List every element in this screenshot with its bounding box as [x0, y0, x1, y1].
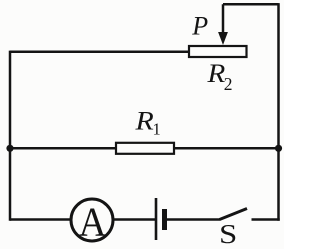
- wire battery to switch: [167, 218, 220, 221]
- rheostat wiper arrowhead: [218, 32, 228, 45]
- resistor R1 body: [116, 143, 174, 154]
- svg-text:S: S: [219, 219, 237, 249]
- svg-text:2: 2: [224, 74, 233, 94]
- node left junction: [6, 145, 13, 152]
- wire middle branch: [10, 147, 279, 150]
- svg-text:R: R: [134, 107, 153, 136]
- battery negative plate (short thick): [162, 209, 167, 230]
- ammeter A body: [71, 199, 113, 241]
- node right junction: [275, 145, 282, 152]
- wire switch to bottom-right corner: [252, 218, 280, 221]
- svg-text:A: A: [79, 198, 107, 245]
- svg-text:P: P: [191, 11, 208, 40]
- battery positive plate (long): [155, 198, 158, 240]
- wire top-left branch (left rail top to R2 left terminal): [10, 51, 189, 54]
- wire ammeter to battery: [113, 218, 155, 221]
- wire wiper stem to top-right corner and right rail: [223, 3, 279, 221]
- wire bottom branch left segment: [10, 218, 71, 221]
- svg-text:R: R: [206, 58, 225, 87]
- wire left rail: [9, 51, 12, 221]
- svg-text:1: 1: [153, 120, 161, 139]
- switch S blade: [220, 209, 248, 220]
- rheostat R2 body: [189, 46, 247, 57]
